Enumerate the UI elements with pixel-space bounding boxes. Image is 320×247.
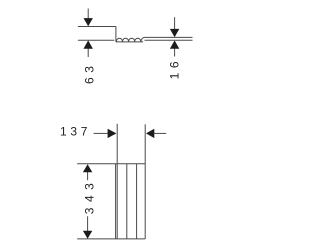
rect bottom edge + 343 bottom extension (77, 238, 145, 240)
flange bottom line (right section) (145, 39, 193, 41)
rect top edge + 343 top extension (77, 163, 145, 165)
dim 343 up arrow (83, 164, 92, 172)
dim 137 left-pointing arrow (146, 129, 154, 138)
flange top line (right section) (145, 36, 193, 38)
dim 137 left tail (94, 132, 108, 134)
profile base line under waves (116, 41, 143, 43)
dim 343 upper stem (87, 172, 89, 180)
dim 63 lower stem (87, 49, 89, 58)
svg-text:16: 16 (168, 61, 182, 79)
svg-text:343: 343 (83, 183, 97, 214)
profile vertical step (115, 27, 117, 42)
dim 137 right tail (154, 132, 166, 134)
rect inner line 3 (136, 164, 138, 239)
rect inner line 2 (126, 164, 128, 239)
dim 63 upper stem (87, 9, 89, 19)
rect left edge (115, 164, 117, 239)
dim 16 lower stem (174, 49, 176, 57)
dim 16 up arrow (170, 40, 179, 48)
dim 137 right-pointing arrow (108, 129, 117, 138)
dim 63 up arrow (84, 40, 93, 48)
svg-text:137: 137 (60, 125, 88, 139)
rect inner line 1 + 137 left extension (116, 124, 118, 239)
svg-text:63: 63 (82, 66, 96, 84)
dim 343 lower stem (87, 216, 89, 231)
dim 16 upper stem (174, 17, 176, 29)
profile top line (left section) (78, 26, 116, 28)
profile bottom line (left section) (78, 39, 114, 41)
dim 16 down arrow (170, 29, 179, 37)
dim 63 down arrow (84, 18, 93, 26)
wavy textured surface (116, 37, 144, 41)
dim 343 down arrow (83, 231, 92, 239)
rect right edge + 137 right extension (144, 124, 146, 239)
